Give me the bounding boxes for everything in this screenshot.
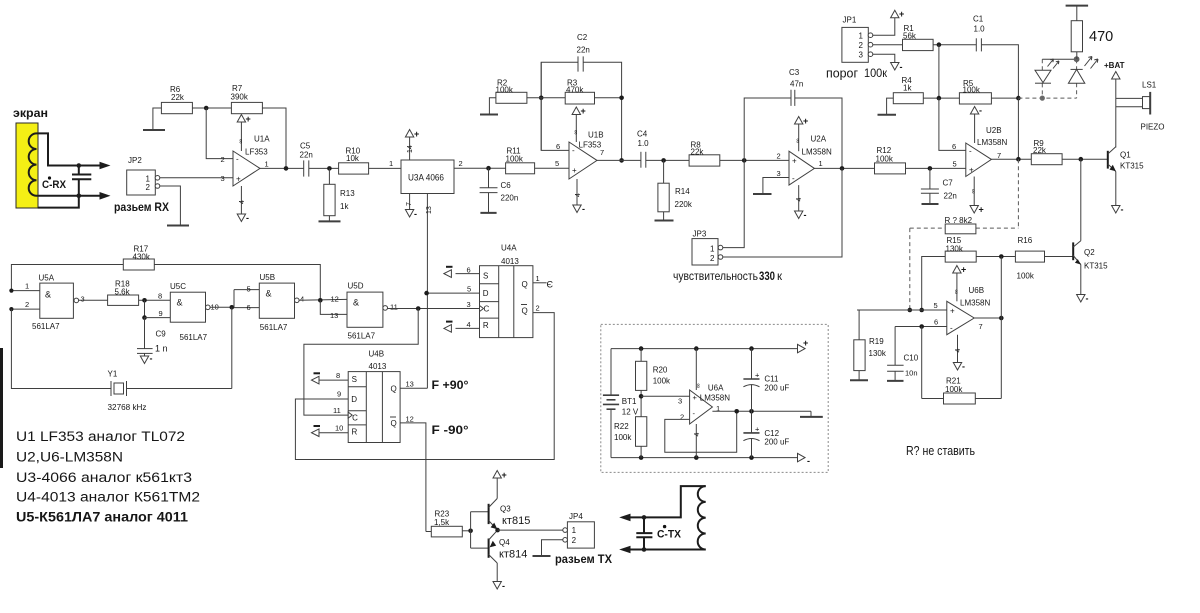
ground U2A pin3 [753,193,772,195]
resistor R21 [944,393,976,404]
svg-text:U5D: U5D [348,282,364,291]
svg-text:разьем RX: разьем RX [114,200,169,214]
svg-text:U4A: U4A [501,244,517,253]
op-amp U2A [789,151,814,185]
svg-text:Q: Q [391,385,397,394]
power V+ U2A [798,124,800,151]
svg-text:LM358N: LM358N [960,299,990,308]
svg-text:LM358N: LM358N [977,138,1007,147]
svg-text:∞: ∞ [237,139,244,144]
node U2A out [840,166,845,171]
svg-text:&: & [353,298,359,308]
wire R21 rail [922,398,944,400]
svg-text:6: 6 [934,318,938,327]
wire JP1 pin2 to R1 [873,44,903,46]
svg-text:-: - [950,324,953,333]
svg-text:R: R [352,428,358,437]
svg-text:S: S [352,375,357,384]
wire U3A out to R11 [454,167,506,169]
svg-text:U1B: U1B [588,131,604,140]
svg-text:-: - [150,354,153,364]
wire U2A out [814,167,874,169]
arrow RX bottom [100,192,111,200]
capacitor C-TX [643,517,645,533]
svg-text:6: 6 [247,303,251,312]
svg-text:100k: 100k [945,385,963,394]
resistor R9 [1031,154,1062,165]
svg-text:Q1: Q1 [1120,151,1131,160]
wire U1B out to C4 [597,159,641,161]
power pin7 U3A [409,194,411,210]
svg-text:кт815: кт815 [502,515,530,527]
node R14 tap [661,158,666,163]
svg-text:разьем TX: разьем TX [555,552,612,566]
wire PSU top rail [611,348,798,350]
svg-text:LF353: LF353 [579,141,602,150]
svg-text:C3: C3 [789,68,800,77]
svg-text:-: - [502,581,505,591]
svg-text:8: 8 [158,292,162,301]
svg-text:+: + [803,116,808,126]
svg-text:5: 5 [467,285,471,294]
svg-text:1k: 1k [903,84,912,93]
op-amp U6A [690,390,713,424]
wire U6A out [712,410,751,412]
svg-text:2: 2 [146,183,151,192]
svg-text:390k: 390k [231,93,249,102]
node R4/R5 [937,96,942,101]
wire U2A pin3 to ground [763,178,789,194]
svg-text:22n: 22n [944,192,957,201]
wire U1B pin6 feedback [541,62,569,150]
svg-text:R20: R20 [653,366,668,375]
node U6B out [999,316,1004,321]
wire U4A pin4 R tie [456,327,480,329]
wire U5B out [299,298,347,301]
wire JP1 pin1 to V+ [873,18,895,35]
svg-text:1: 1 [265,160,269,169]
node R13 tap [327,166,332,171]
svg-text:+: + [969,166,974,175]
svg-text:12 V: 12 V [622,408,639,417]
wire R5 right [991,97,1018,99]
resistor R22 [636,417,647,447]
wire Q2 emitter to V- [1080,265,1082,295]
capacitor C11 [743,378,759,380]
power C9 V- [144,353,146,356]
power V+ U1A [240,122,242,151]
wire U4B Q pin13 to U3A control [400,387,427,389]
svg-text:561LA7: 561LA7 [348,332,376,341]
svg-text:U6B: U6B [969,286,985,295]
svg-text:R: R [483,321,489,330]
svg-text:-: - [969,147,972,156]
svg-text:47n: 47n [790,80,803,89]
wire node to U1A pin2 [206,108,233,159]
svg-text:1: 1 [536,274,540,283]
wire R9 to Q1 base [1062,158,1108,160]
svg-text:4: 4 [239,200,246,204]
svg-text:3: 3 [678,397,682,406]
node Q1 base / Q2 collector [1079,157,1084,162]
resistor R17 [123,259,154,270]
wire RX coil top [37,133,106,165]
resistor R2 [496,92,527,103]
svg-text:U2,U6-LM358N: U2,U6-LM358N [16,450,123,465]
svg-text:130k: 130k [946,245,964,254]
svg-text:100к: 100к [864,66,888,80]
resistor R20 [640,349,642,362]
svg-text:чувствительность: чувствительность [673,271,758,283]
node driver out [495,528,500,533]
power V- U2A [798,185,800,211]
wire R6 right to node [192,107,231,109]
flip-flop U4B 4013 [348,372,400,443]
wire U4A Qbar pin2 feedback [295,313,554,460]
power bottom U2B (plus) [973,177,975,206]
svg-text:C-RX: C-RX [42,179,67,191]
svg-text:470k: 470k [566,85,584,94]
nand gate U5A [40,283,74,318]
svg-text:U5A: U5A [39,274,55,283]
wire U5C out [210,306,234,308]
svg-text:561LA7: 561LA7 [180,333,208,342]
LED left (down) [1035,70,1051,82]
node RX bottom [77,194,82,199]
wire C1 right down to R5 node [981,45,1018,98]
wire U3A pin13 control (down) [426,194,428,389]
svg-text:Q3: Q3 [500,505,511,514]
svg-text:+: + [899,9,904,19]
svg-text:1: 1 [572,526,577,535]
arrow PSU plus out [798,344,806,352]
arrow TX top [619,514,630,522]
svg-text:3: 3 [777,169,781,178]
capacitor C9 [144,318,146,349]
wire JP2 pin2 to ground [160,186,181,226]
svg-text:22n: 22n [300,151,313,160]
svg-text:JP2: JP2 [128,156,142,165]
svg-text:3: 3 [859,51,864,60]
svg-text:+: + [961,265,966,275]
svg-text:&: & [45,290,51,300]
svg-text:U5B: U5B [260,273,276,282]
wire U4B pin10 R tie [319,432,348,434]
svg-text:4: 4 [467,320,471,329]
power V- U1B [576,179,578,205]
connector JP4 [567,522,594,548]
svg-text:8: 8 [336,371,340,380]
wire C2 feedback rail [541,62,578,98]
transistor Q2 KT315 [1072,242,1074,260]
svg-text:1: 1 [710,245,715,254]
resistor R14 [663,160,665,183]
svg-text:5: 5 [555,159,559,168]
svg-text:100k: 100k [1017,272,1035,281]
nand gate U5D [347,292,383,327]
wire R21 left vertical [921,327,923,399]
op-amp U1A [233,151,260,186]
power supply dashed box [601,324,828,472]
flip-flop U4A 4013 [480,266,533,338]
svg-text:430k: 430k [133,252,151,261]
power V+ U1B [575,115,577,143]
svg-text:2: 2 [536,304,540,313]
node R15/R16 [999,254,1004,259]
power Q3 V+ [496,478,498,499]
wire U5D pin13 [320,300,347,314]
capacitor C4 [640,152,642,168]
svg-text:U3A 4066: U3A 4066 [408,173,444,183]
svg-text:1: 1 [389,159,393,168]
svg-text:R? не ставить: R? не ставить [906,444,975,458]
wire pin6 vertical lower [540,98,542,151]
svg-text:-: - [582,204,585,214]
svg-text:2: 2 [859,41,864,50]
node R2/R3 [539,96,544,101]
black margin bar [0,348,3,468]
svg-text:22k: 22k [171,93,185,102]
resistor R5 [959,93,991,104]
svg-text:470: 470 [1089,29,1113,45]
svg-text:-: - [792,174,795,183]
svg-text:5: 5 [934,301,938,310]
resistor R3 [565,92,594,104]
svg-text:13: 13 [426,206,433,214]
svg-text:+: + [803,338,808,348]
svg-text:2: 2 [459,159,463,168]
wire U5D out clock node [388,308,480,310]
svg-text:100k: 100k [506,155,524,164]
svg-text:13: 13 [330,311,338,320]
svg-text:5,6k: 5,6k [115,288,131,297]
svg-text:F +90°: F +90° [432,378,469,392]
node LED top [1074,56,1080,62]
svg-text:+: + [755,425,760,434]
svg-text:Q2: Q2 [1084,248,1095,257]
svg-text:R22: R22 [614,422,629,431]
dashed hysteresis net [1017,159,1019,228]
svg-text:-: - [414,209,417,219]
svg-text:экран: экран [13,106,48,120]
wire U6B pin6 [895,326,947,328]
svg-text:U2A: U2A [811,135,827,144]
svg-text:+BAT: +BAT [1104,61,1125,70]
node RX top [77,163,82,168]
svg-text:+: + [246,114,251,124]
analog switch U3A 4066 [401,160,454,194]
ground R14 [655,220,674,222]
node C6 tap [486,166,491,171]
op-amp U2B [966,143,992,177]
transistor Q1 KT315 [1107,151,1109,169]
svg-text:C6: C6 [501,181,512,190]
wire U5B inputs tie [233,290,235,308]
node R? to pin5 [908,308,913,313]
svg-text:C7: C7 [943,179,954,188]
node R1/C1 [937,42,942,47]
ground R6 [143,129,165,131]
svg-text:C10: C10 [904,354,919,363]
wire left vertical to Y1 [11,309,111,388]
resistor R15 [945,251,976,262]
svg-text:C4: C4 [637,130,648,139]
ground R13 [319,220,341,222]
svg-text:LM358N: LM358N [802,148,832,157]
node R17/U5D [318,298,323,303]
svg-text:1 n: 1 n [155,344,168,354]
svg-text:U5-К561ЛА7 аналог 4011: U5-К561ЛА7 аналог 4011 [16,510,189,525]
svg-text:+: + [950,307,955,316]
wire pin9 tap [144,300,146,317]
power V- U1A [240,186,242,214]
svg-text:4: 4 [955,349,962,353]
svg-text:+: + [693,393,698,402]
svg-text:3: 3 [221,174,225,183]
coil L-TX [698,486,706,549]
resistor R? 8k2 [945,224,976,234]
wire JP4 pin2 stub [542,540,563,556]
node U1A out [284,166,289,171]
svg-text:R19: R19 [869,337,884,346]
svg-text:100k: 100k [614,433,632,442]
svg-text:R14: R14 [675,187,690,196]
svg-text:6: 6 [952,142,956,151]
svg-text:4013: 4013 [369,362,387,371]
resistor R11 [506,163,535,174]
svg-text:200 uF: 200 uF [764,384,789,393]
arrow PSU minus out [798,453,806,461]
wire mid rail to ground stub [752,410,812,412]
wire U2B out to R9 [991,158,1031,160]
svg-text:D: D [351,395,357,404]
svg-text:9: 9 [337,390,341,399]
svg-text:Є: Є [547,280,554,290]
capacitor C-RX [78,166,80,175]
svg-text:1.0: 1.0 [638,139,650,148]
resistor R19 [858,310,860,340]
svg-text:JP4: JP4 [569,512,583,521]
svg-text:D: D [483,289,489,298]
wire C3 bridge [744,98,791,160]
svg-text:C11: C11 [764,375,779,384]
power V+ U6B [956,273,958,301]
svg-text:1.0: 1.0 [974,25,986,34]
svg-text:2: 2 [25,300,29,309]
resistor R8 [689,155,720,166]
arrow TX bottom [619,546,630,554]
capacitor C1 [975,38,977,51]
svg-text:U4B: U4B [369,349,385,358]
wire TX top [625,486,706,517]
svg-text:1: 1 [25,282,29,291]
svg-text:220n: 220n [501,194,519,203]
wire R2 to R3 [527,97,565,99]
svg-text:4: 4 [694,433,701,437]
svg-text:10: 10 [335,424,343,433]
svg-text:Q: Q [522,280,528,289]
svg-text:6: 6 [556,142,560,151]
svg-text:&: & [177,298,183,308]
svg-text:32768 kHz: 32768 kHz [108,403,147,412]
svg-text:U6A: U6A [708,384,724,393]
svg-text:12: 12 [331,295,339,304]
arrow RX top [100,162,111,170]
svg-text:1,5k: 1,5k [434,518,450,527]
capacitor C7 [929,168,931,189]
svg-text:+: + [236,175,241,184]
svg-text:13: 13 [406,380,414,389]
ground R2 [480,114,498,116]
connector JP2 [127,170,156,195]
dashed net LED rail [1018,97,1076,99]
power U6A bottom [695,424,697,458]
nand gate U5C [170,292,205,322]
wire out to JP4 [498,529,563,531]
svg-text:LM358N: LM358N [700,394,730,403]
svg-text:330: 330 [759,271,775,283]
wire clock to U4B C [304,309,418,416]
svg-text:12: 12 [406,415,414,424]
svg-text:-: - [804,210,807,220]
svg-text:22k: 22k [691,148,705,157]
svg-text:C-TX: C-TX [657,529,682,541]
svg-text:JP3: JP3 [693,230,707,239]
svg-text:∞: ∞ [695,384,702,389]
power Q4 V- [496,563,498,582]
svg-text:F -90°: F -90° [432,423,469,437]
node pin6/R21 [919,324,924,329]
svg-text:R13: R13 [340,189,355,198]
svg-text:2: 2 [221,155,225,164]
wire LED node up to 470 [1076,52,1078,59]
svg-text:Q: Q [522,307,528,316]
wire R divider to U6A pin3 [641,395,690,397]
wire U1A output [260,167,304,169]
svg-text:-: - [246,213,249,223]
svg-text:14: 14 [407,145,414,153]
svg-text:561LA7: 561LA7 [260,323,288,332]
transistor Q3 KT815 [488,504,490,524]
transistor Q4 KT814 [488,539,490,558]
svg-text:4013: 4013 [501,257,519,266]
capacitor C12 [743,432,759,434]
svg-text:U3-4066 аналог к561кт3: U3-4066 аналог к561кт3 [16,470,192,485]
svg-text:R ? 8k2: R ? 8k2 [945,216,973,225]
wire U6B out [974,317,1001,319]
svg-text:C1: C1 [973,15,984,24]
svg-text:9: 9 [159,309,163,318]
svg-text:+: + [572,166,577,175]
svg-text:2: 2 [777,152,781,161]
svg-text:KT315: KT315 [1084,262,1108,271]
svg-text:220k: 220k [675,200,693,209]
svg-text:2: 2 [710,254,715,263]
capacitor C5 [303,160,305,176]
svg-text:∞: ∞ [572,130,579,135]
power pin14 U3A [409,137,411,160]
resistor R6 [161,102,192,113]
svg-text:U1A: U1A [254,135,270,144]
svg-text:-: - [962,362,965,372]
wire R8 to U2A pin2 [720,159,789,161]
svg-text:3: 3 [81,295,85,304]
LED right (up) [1071,68,1083,70]
svg-text:R16: R16 [1018,236,1033,245]
svg-text:4: 4 [300,295,304,304]
svg-text:5: 5 [953,160,957,169]
svg-text:порог: порог [826,66,858,81]
